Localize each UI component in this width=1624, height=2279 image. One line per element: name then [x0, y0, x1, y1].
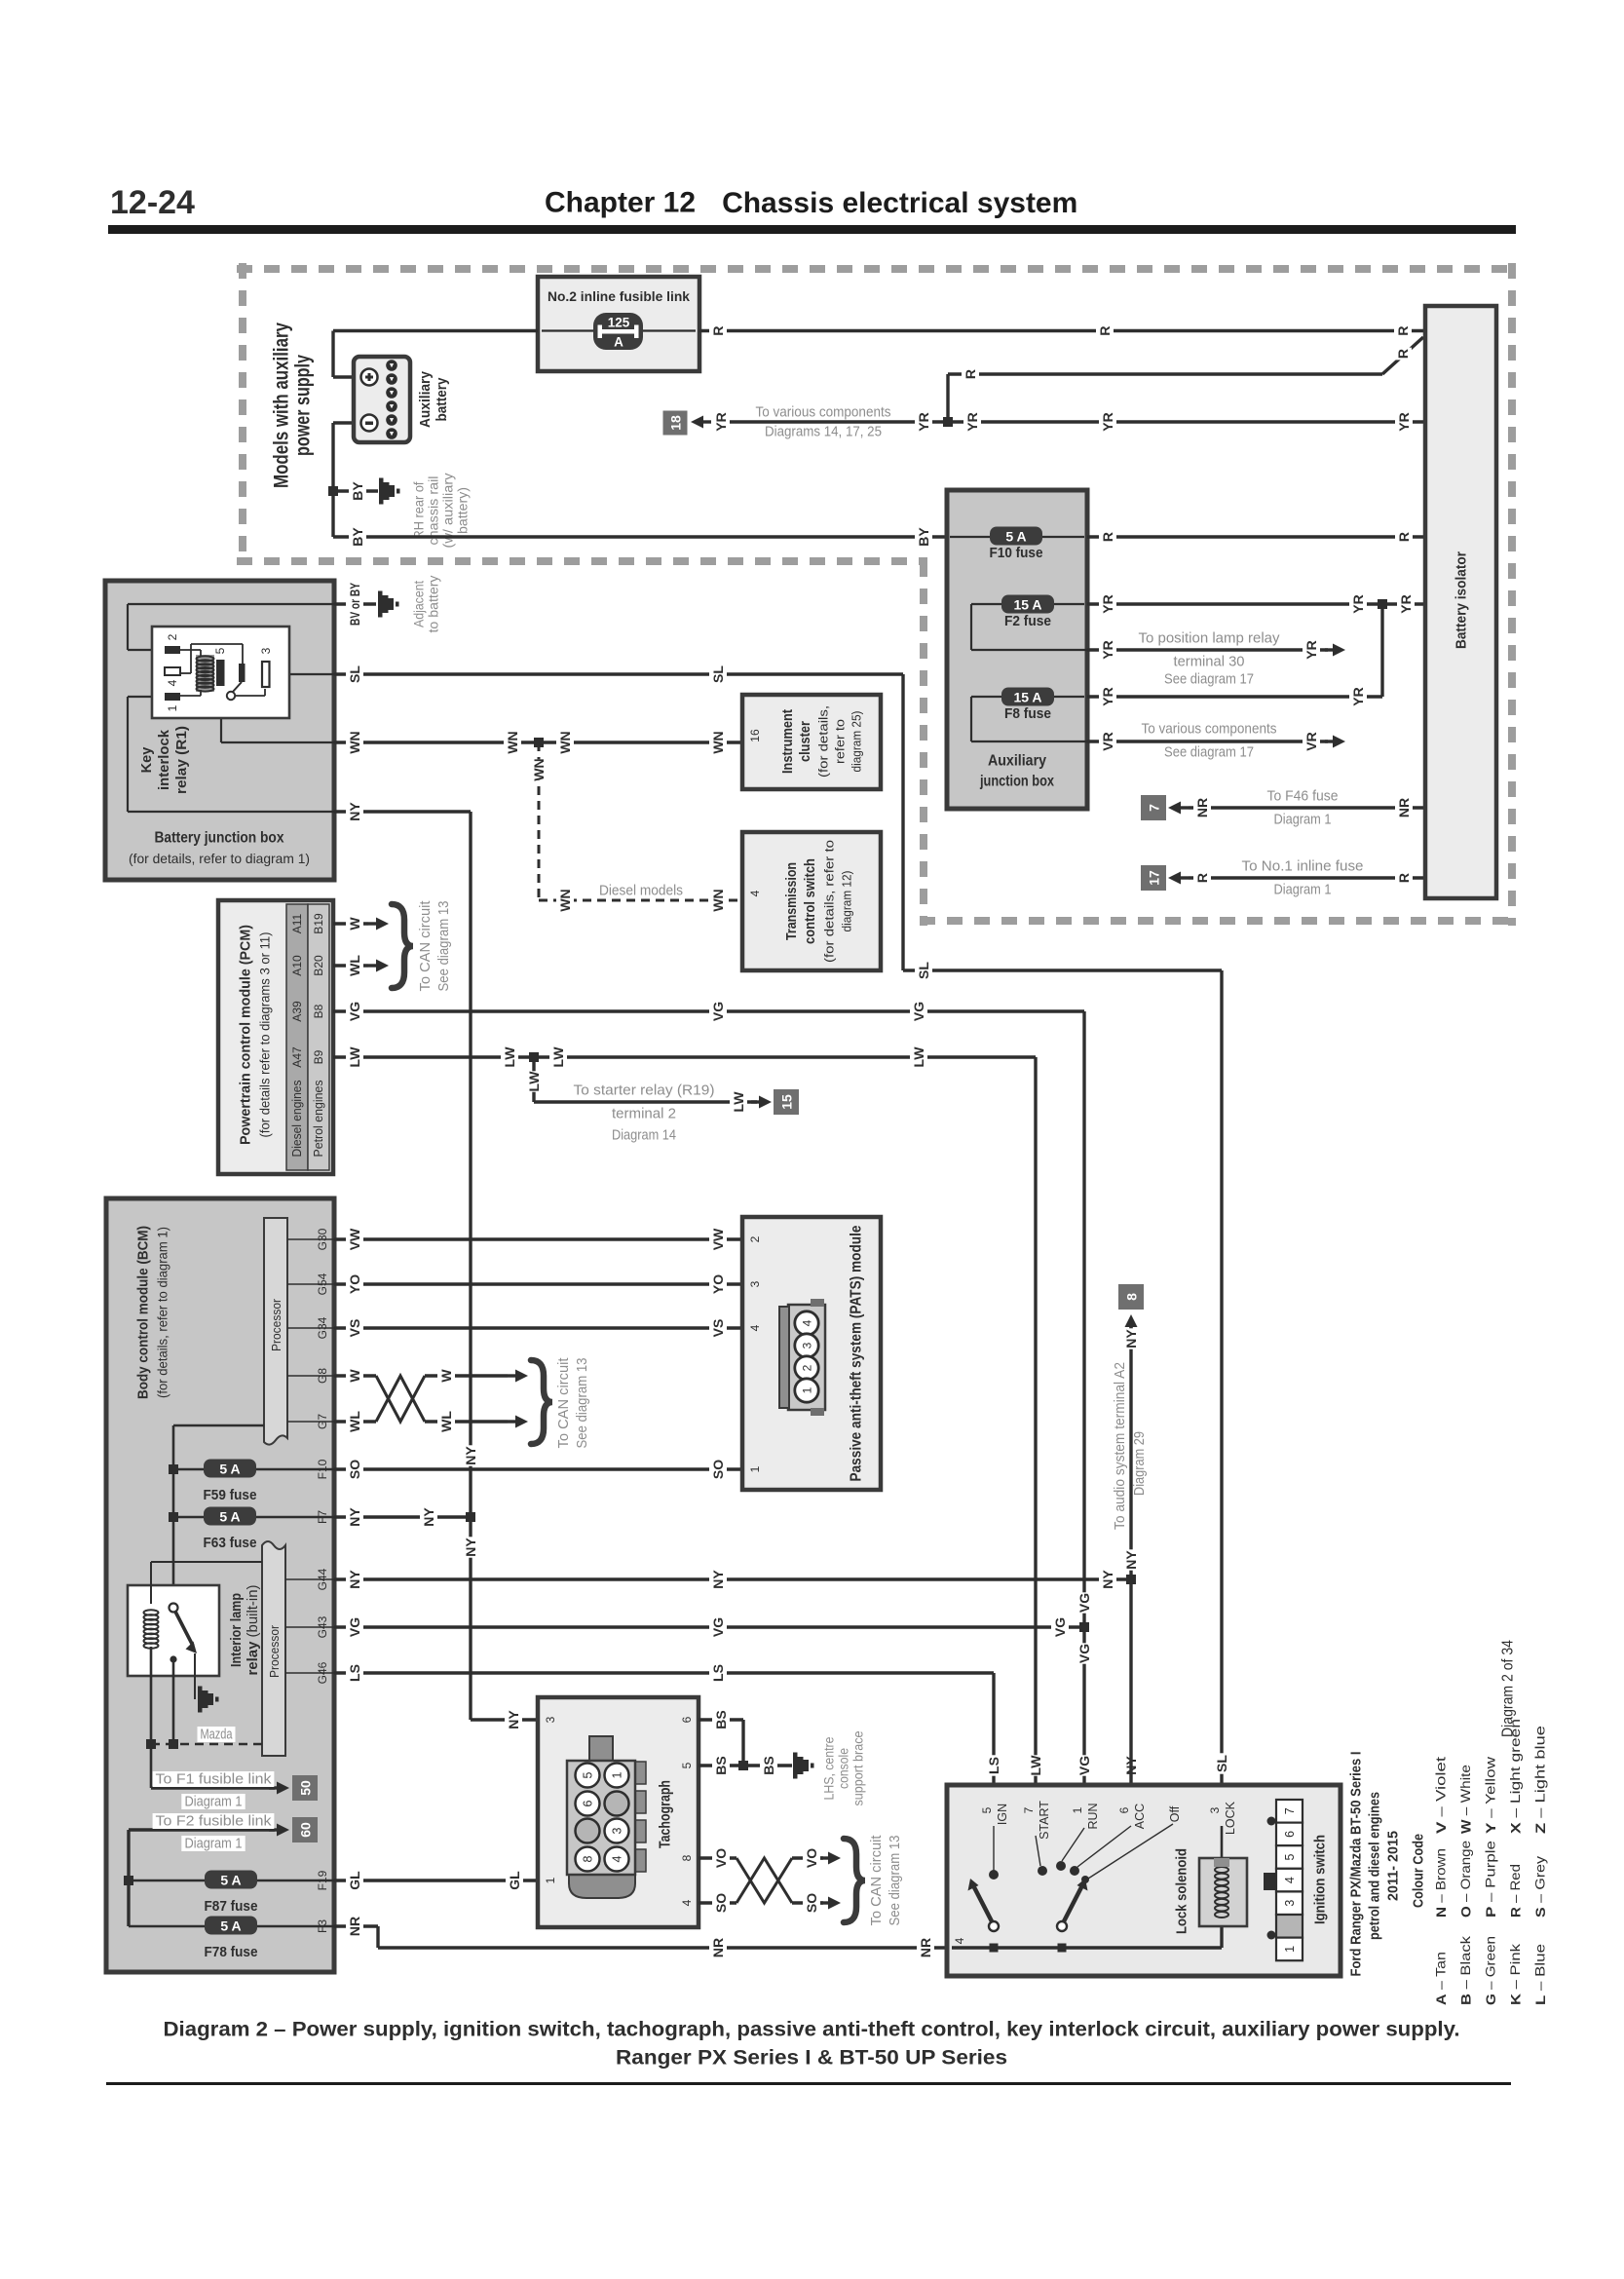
svg-text:cluster: cluster — [798, 721, 813, 762]
svg-text:8: 8 — [680, 1854, 694, 1861]
wire label SL — [346, 664, 363, 684]
wire label WN — [556, 889, 574, 911]
svg-text:4: 4 — [748, 1324, 762, 1331]
svg-text:Chapter 12Chassis electrical s: Chapter 12Chassis electrical system — [545, 187, 1077, 219]
svg-text:SL: SL — [710, 665, 726, 683]
wire SL down to ignition switch — [1220, 970, 1223, 1797]
connector square 50 — [292, 1775, 318, 1801]
wire label R — [1096, 324, 1114, 337]
wire label R — [1193, 872, 1211, 885]
svg-text:(for details, refer to diagram: (for details, refer to diagram 1) — [156, 1227, 170, 1398]
wire to interior relay ground — [194, 1653, 196, 1699]
svg-text:NR: NR — [347, 1917, 362, 1936]
svg-text:Interior lamp: Interior lamp — [229, 1593, 245, 1667]
svg-text:SO: SO — [804, 1893, 819, 1913]
wire VW to PATS — [334, 1237, 742, 1240]
svg-text:See diagram 17: See diagram 17 — [1164, 671, 1254, 688]
svg-text:R: R — [1194, 873, 1210, 883]
dashed wire WN diesel models — [539, 899, 742, 902]
wire through F10 fuse — [950, 536, 1084, 538]
note diagrams 14 17 25 — [762, 424, 885, 440]
svg-text:YR: YR — [964, 412, 980, 431]
svg-text:W: W — [347, 917, 362, 931]
wire label YR — [963, 411, 981, 432]
junction Mazda 1 — [146, 1739, 156, 1749]
connector square 17 — [1141, 865, 1166, 891]
svg-text:1: 1 — [166, 704, 179, 711]
ignition right switch arm — [1057, 1876, 1089, 1931]
svg-text:To CAN circuit: To CAN circuit — [869, 1836, 885, 1926]
wire R to isolator — [1189, 876, 1425, 879]
svg-text:R – Red: R – Red — [1508, 1864, 1523, 1918]
svg-text:R: R — [710, 325, 726, 335]
svg-text:G30: G30 — [316, 1228, 329, 1250]
ground LHS centre console support brace — [793, 1753, 814, 1779]
tachograph box — [538, 1697, 699, 1927]
dashed border bottom-left — [237, 557, 927, 565]
fuse F63 5A — [204, 1507, 256, 1526]
svg-text:5: 5 — [680, 1762, 694, 1768]
svg-text:Ranger PX Series I & BT-50 UP: Ranger PX Series I & BT-50 UP Series — [616, 2047, 1007, 2070]
wire YR to position lamp relay — [1087, 648, 1328, 651]
svg-text:15 A: 15 A — [1013, 690, 1041, 705]
svg-text:1: 1 — [1071, 1806, 1084, 1813]
relay pivot — [227, 692, 235, 700]
internal wire pin1 left — [128, 696, 165, 698]
lock solenoid box — [1199, 1858, 1247, 1926]
internal wire F2 branch — [970, 604, 972, 650]
svg-text:R: R — [963, 369, 978, 379]
svg-text:Adjacent: Adjacent — [412, 581, 427, 627]
wire R to isolator lower — [948, 372, 1382, 375]
dashed wire WN diesel drop — [538, 742, 541, 900]
wire through F59 fuse — [173, 1468, 334, 1471]
wire NY into tachograph — [471, 1718, 538, 1721]
svg-text:WL: WL — [438, 1411, 454, 1432]
wire label WL — [437, 1411, 455, 1432]
svg-text:4: 4 — [166, 679, 179, 686]
svg-text:15 A: 15 A — [1013, 597, 1041, 613]
relay R1 coil — [197, 656, 214, 691]
svg-text:N – Brown: N – Brown — [1434, 1848, 1449, 1918]
note diagram 1 — [181, 1794, 245, 1810]
wire label WL — [346, 955, 363, 976]
relay pin 2 — [165, 646, 180, 654]
svg-text:L – Blue: L – Blue — [1533, 1944, 1548, 2005]
wire label WN — [556, 731, 574, 753]
junction LW — [529, 1052, 539, 1062]
svg-text:VR: VR — [1100, 732, 1115, 750]
wire to battery positive — [333, 375, 354, 378]
wire label LW — [910, 1046, 927, 1068]
fuse F2 15A — [1001, 595, 1054, 614]
relay pin 5 bar — [216, 660, 225, 686]
svg-text:YR: YR — [1100, 412, 1115, 431]
fuse F87 5A — [205, 1871, 257, 1889]
wire label SO — [803, 1892, 820, 1913]
connector square 60 — [292, 1817, 318, 1842]
wire label VG — [709, 1616, 727, 1637]
wire NY vertical audio to ACC — [1129, 1327, 1132, 1797]
wire label LW — [549, 1046, 567, 1068]
wire WL to arrow — [425, 1420, 508, 1423]
PATS connector pin 1 — [795, 1379, 818, 1402]
svg-text:G34: G34 — [316, 1316, 329, 1339]
svg-text:Processor: Processor — [268, 1625, 282, 1678]
note to starter relay — [570, 1083, 717, 1099]
fuse F78 5A — [205, 1917, 257, 1935]
svg-text:Diagram 1: Diagram 1 — [185, 1794, 243, 1810]
svg-text:8: 8 — [582, 1855, 595, 1862]
wire through F63 fuse — [173, 1516, 334, 1519]
wire label SL — [709, 664, 727, 684]
svg-text:G54: G54 — [316, 1272, 329, 1295]
svg-text:7: 7 — [1283, 1807, 1297, 1814]
svg-text:18: 18 — [668, 415, 684, 431]
svg-text:Diesel engines: Diesel engines — [290, 1081, 304, 1158]
relay switch arm — [232, 682, 242, 693]
junction internal bus F59 — [169, 1464, 178, 1474]
wire SL drop — [901, 674, 904, 970]
wire label NY — [1099, 1569, 1116, 1589]
ignition contact square left — [990, 1944, 999, 1953]
relay pin 3 — [262, 662, 270, 687]
wire battery positive feed — [331, 331, 334, 378]
relay wire pin3 riser — [264, 689, 266, 696]
wire label NR — [917, 1937, 934, 1957]
wire label WN — [346, 731, 363, 753]
junction WN — [534, 738, 544, 747]
svg-text:4: 4 — [801, 1319, 814, 1326]
svg-text:YR: YR — [1350, 687, 1366, 705]
note to position lamp relay — [1135, 630, 1282, 647]
fuse F8 15A — [1001, 688, 1054, 706]
wire label R — [1394, 348, 1412, 361]
wire label YR — [1349, 686, 1367, 706]
arrow to audio system — [1125, 1314, 1138, 1335]
wire label WL — [346, 1411, 363, 1432]
ignition line ACC — [1077, 1826, 1131, 1867]
interior relay pivot — [170, 1604, 178, 1613]
svg-text:R: R — [1395, 349, 1411, 359]
svg-text:NY: NY — [347, 1570, 362, 1589]
svg-text:125: 125 — [608, 316, 630, 330]
arrow to starter relay — [751, 1096, 772, 1109]
wire VO from pin 8 — [699, 1856, 736, 1859]
svg-text:IGN: IGN — [996, 1804, 1009, 1825]
note diagram 1 — [181, 1836, 245, 1852]
wire label GL — [346, 1870, 363, 1890]
svg-text:VG: VG — [347, 1617, 362, 1637]
svg-text:NR: NR — [710, 1938, 726, 1957]
svg-text:R: R — [1097, 325, 1113, 335]
wire label GL — [506, 1870, 523, 1890]
wire label R — [1395, 872, 1413, 885]
svg-text:1: 1 — [801, 1386, 814, 1393]
svg-text:Battery junction box: Battery junction box — [155, 830, 284, 847]
svg-text:P – Purple: P – Purple — [1484, 1841, 1498, 1918]
svg-text:VG: VG — [1076, 1593, 1092, 1613]
wire label LW — [501, 1046, 518, 1068]
wire inside fusible link box — [643, 329, 696, 331]
ignition left switch arm — [968, 1879, 1000, 1931]
wire label VR — [1099, 731, 1116, 751]
internal wire to position lamp output — [971, 649, 1087, 651]
svg-text:Ford Ranger PX/Mazda BT-50 Ser: Ford Ranger PX/Mazda BT-50 Series I — [1348, 1752, 1365, 1977]
svg-text:BS: BS — [713, 1756, 729, 1774]
wire R drop to YR junction — [946, 374, 949, 422]
svg-text:LW: LW — [550, 1046, 566, 1068]
wire label YR — [712, 411, 730, 432]
svg-text:control switch: control switch — [803, 858, 818, 944]
svg-text:5 A: 5 A — [1005, 529, 1026, 545]
tachograph connector blank pin — [605, 1792, 629, 1816]
svg-text:7: 7 — [1147, 804, 1162, 812]
PATS connector pin 3 — [795, 1334, 818, 1357]
svg-text:NY: NY — [421, 1507, 436, 1527]
svg-text:WN: WN — [557, 731, 573, 753]
leader line — [287, 1327, 334, 1329]
svg-text:Key: Key — [139, 747, 155, 774]
svg-text:3: 3 — [748, 1280, 762, 1287]
wire label R — [1394, 324, 1412, 337]
svg-text:R: R — [1395, 325, 1411, 335]
wire VR to various components — [1087, 740, 1328, 742]
svg-text:battery): battery) — [456, 487, 471, 534]
svg-text:5 A: 5 A — [220, 1873, 241, 1888]
wire label VO — [803, 1847, 820, 1868]
svg-text:VW: VW — [347, 1228, 362, 1250]
wire label YR — [1395, 411, 1413, 432]
wire NR inside ignition switch — [952, 1946, 1222, 1949]
svg-text:Off: Off — [1168, 1805, 1182, 1822]
battery negative terminal — [361, 415, 378, 432]
svg-text:5 A: 5 A — [219, 1509, 240, 1525]
svg-text:support brace: support brace — [851, 1731, 866, 1806]
svg-text:B20: B20 — [312, 955, 325, 976]
wire LW from PCM — [333, 1055, 1036, 1058]
svg-text:LS: LS — [347, 1664, 362, 1682]
wire label NY — [420, 1506, 437, 1527]
tachograph connector — [567, 1736, 646, 1898]
svg-text:battery: battery — [434, 378, 450, 422]
header rule — [108, 225, 1516, 234]
wire YR junction drop — [1380, 604, 1383, 697]
svg-text:LW: LW — [911, 1046, 926, 1068]
tachograph connector pin 3 — [605, 1819, 629, 1843]
wire WL from BCM — [334, 1420, 376, 1423]
svg-text:Diagram 1: Diagram 1 — [185, 1836, 243, 1852]
svg-text:R: R — [1396, 532, 1412, 542]
svg-text:YR: YR — [713, 412, 729, 431]
junction NY audio — [1126, 1575, 1136, 1584]
wire label WN — [709, 889, 727, 911]
note diagram 14 — [609, 1127, 679, 1144]
svg-text:Diagrams 14, 17, 25: Diagrams 14, 17, 25 — [765, 424, 882, 440]
fuse F10 5A — [990, 527, 1042, 546]
wire WL to CAN — [333, 964, 368, 967]
ignition connector strip — [1264, 1800, 1303, 1960]
tachograph connector pin 1 — [605, 1764, 629, 1788]
wire label NY — [346, 1506, 363, 1527]
wire label LW — [730, 1091, 747, 1113]
wire NY from F7 — [334, 1515, 471, 1518]
svg-text:Z – Light blue: Z – Light blue — [1533, 1726, 1548, 1834]
svg-text:F3: F3 — [316, 1919, 329, 1933]
svg-text:Models with auxiliary: Models with auxiliary — [271, 323, 293, 488]
note to F2 fusible link — [153, 1813, 275, 1830]
wire BY to auxiliary junction box — [333, 535, 947, 538]
arrow WL to CAN — [508, 1416, 528, 1428]
wire label NY — [346, 801, 363, 821]
wire LW branch drop — [532, 1057, 535, 1102]
svg-text:WL: WL — [347, 1411, 362, 1432]
svg-text:YR: YR — [916, 412, 931, 431]
tachograph connector blank pin — [576, 1819, 600, 1843]
interior relay contact dot — [170, 1655, 176, 1662]
svg-text:G44: G44 — [316, 1568, 329, 1590]
leader line — [287, 1375, 334, 1377]
wire label YR — [1099, 686, 1116, 706]
wire label NR — [1395, 797, 1413, 817]
wire label VG — [346, 1001, 363, 1021]
svg-text:3: 3 — [611, 1827, 624, 1834]
svg-text:Colour Code: Colour Code — [1411, 1834, 1427, 1908]
svg-text:3: 3 — [1283, 1900, 1297, 1907]
BCM processor strip 2 — [262, 1541, 285, 1756]
wire VO to arrow — [792, 1856, 823, 1859]
wire R from battery to fusible link — [333, 329, 538, 332]
wire label NY vertical — [1122, 1328, 1140, 1348]
wire BV or BY to ground — [334, 602, 376, 605]
junction on BY wire — [328, 486, 338, 496]
svg-text:Battery isolator: Battery isolator — [1454, 551, 1470, 649]
wire label NY vertical — [1122, 1755, 1140, 1775]
svg-text:5: 5 — [980, 1806, 994, 1813]
wire BS drop — [741, 1720, 744, 1766]
svg-text:No.2 inline fusible link: No.2 inline fusible link — [548, 288, 690, 304]
svg-text:NY: NY — [463, 1538, 478, 1557]
svg-text:4: 4 — [1283, 1877, 1297, 1883]
wire label SO — [346, 1459, 363, 1479]
ground RH rear of chassis rail — [379, 478, 400, 505]
svg-text:Passive anti-theft system (PAT: Passive anti-theft system (PATS) module — [849, 1225, 865, 1481]
svg-text:5 A: 5 A — [220, 1918, 241, 1934]
wire label SL — [915, 960, 932, 980]
lock solenoid coil — [1215, 1867, 1228, 1918]
wire label NY vertical — [1122, 1549, 1140, 1570]
brace to CAN circuit — [392, 904, 413, 988]
internal wire coil to processor — [151, 1561, 262, 1563]
wire label LW — [346, 1046, 363, 1068]
ignition line RUN — [1062, 1828, 1084, 1861]
svg-text:NR: NR — [1194, 798, 1210, 817]
wire from battery negative — [333, 421, 354, 424]
wire R to battery isolator — [1087, 535, 1425, 538]
fuse F59 5A — [204, 1460, 256, 1478]
wire label LS — [709, 1662, 727, 1683]
svg-text:WL: WL — [347, 955, 362, 976]
svg-text:F2 fuse: F2 fuse — [1004, 614, 1051, 629]
svg-text:Diagram 14: Diagram 14 — [612, 1127, 676, 1144]
svg-text:interlock: interlock — [157, 729, 172, 790]
svg-text:GL: GL — [507, 1871, 522, 1890]
internal wire coil top up — [150, 1562, 152, 1604]
junction Mazda 2 — [169, 1739, 178, 1749]
PATS connector pin 4 — [795, 1311, 818, 1335]
arrow W to CAN — [368, 918, 389, 931]
svg-text:LW: LW — [502, 1046, 517, 1068]
wire label VS — [709, 1317, 727, 1338]
wire NY from battery junction box — [334, 810, 471, 813]
svg-text:F7: F7 — [316, 1510, 329, 1524]
svg-text:R: R — [1396, 873, 1412, 883]
wire through F8 fuse — [971, 696, 1084, 698]
wire label VG — [346, 1616, 363, 1637]
internal wire contact down — [172, 1659, 175, 1744]
svg-text:K – Pink: K – Pink — [1508, 1944, 1523, 2005]
dashed border step — [920, 561, 927, 926]
interior relay switch arm — [175, 1612, 193, 1646]
wire GL to tachograph — [334, 1879, 538, 1881]
relay wire pin1 to coil bottom — [180, 695, 201, 697]
svg-text:16: 16 — [748, 729, 762, 742]
tachograph connector pin 5 — [576, 1764, 600, 1788]
dashed border bottom-right — [920, 917, 1516, 925]
svg-text:YR: YR — [1396, 412, 1412, 431]
auxiliary battery box — [354, 357, 410, 442]
note diagram 1 — [1270, 882, 1334, 898]
junction BS — [738, 1761, 748, 1770]
svg-text:B8: B8 — [312, 1004, 325, 1018]
wire label NY — [505, 1709, 522, 1729]
connector square 7 — [1141, 795, 1166, 820]
ignition line START — [1036, 1836, 1040, 1866]
svg-text:50: 50 — [298, 1780, 314, 1796]
svg-text:(for details,: (for details, — [816, 705, 831, 778]
arrow to connector 18 — [691, 416, 711, 429]
wire label VR — [1303, 731, 1320, 751]
relay wire pin4 right — [180, 672, 191, 674]
dashed wire Mazda — [151, 1743, 262, 1746]
svg-text:12-24: 12-24 — [110, 184, 195, 221]
svg-text:3: 3 — [801, 1342, 814, 1348]
wire label WN — [504, 731, 521, 753]
svg-text:A – Tan: A – Tan — [1434, 1952, 1449, 2005]
svg-text:A11: A11 — [290, 913, 304, 933]
svg-text:NY: NY — [1123, 1329, 1139, 1348]
wire NR drop — [376, 1926, 379, 1948]
wire label R — [962, 368, 979, 381]
battery isolator box — [1425, 306, 1496, 898]
wire label LW vertical — [1027, 1755, 1044, 1776]
svg-text:RH rear of: RH rear of — [412, 481, 427, 539]
svg-text:4: 4 — [953, 1937, 966, 1944]
svg-text:G43: G43 — [316, 1615, 329, 1638]
relay wire to fixed contact — [191, 643, 243, 645]
svg-text:NY: NY — [1100, 1570, 1115, 1589]
internal wire to processor — [173, 1424, 264, 1427]
svg-text:60: 60 — [298, 1822, 314, 1838]
svg-text:petrol and diesel engines: petrol and diesel engines — [1367, 1792, 1383, 1940]
svg-text:To position lamp relay: To position lamp relay — [1139, 630, 1280, 647]
svg-text:ACC: ACC — [1133, 1804, 1147, 1829]
svg-text:Y – Yellow: Y – Yellow — [1484, 1757, 1498, 1834]
relay wire pivot to pin3 — [235, 695, 265, 697]
relay R1 coil background — [196, 655, 214, 692]
svg-text:VG: VG — [911, 1002, 926, 1021]
svg-text:B – Black: B – Black — [1458, 1936, 1473, 2005]
